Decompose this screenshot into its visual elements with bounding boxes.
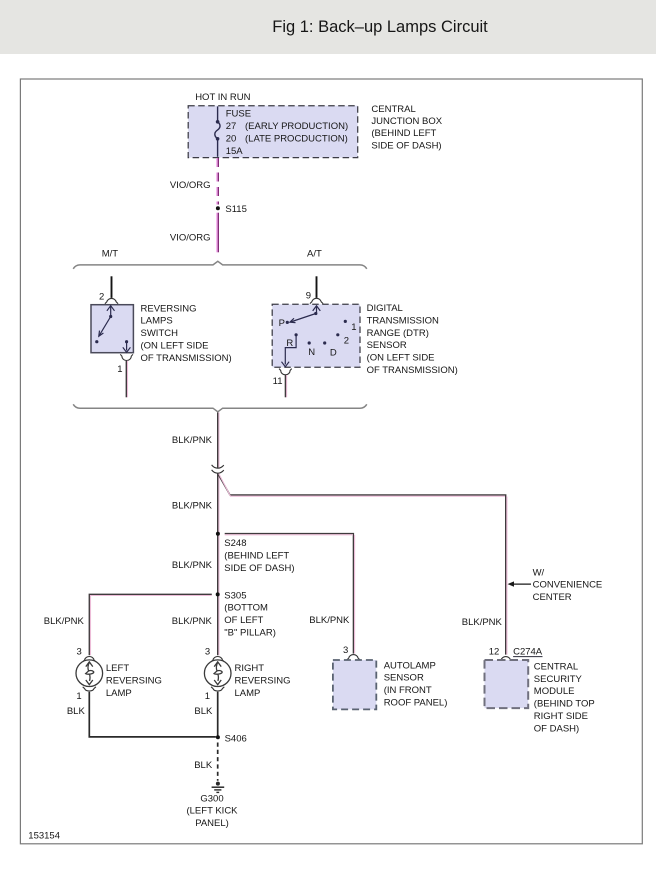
svg-text:1: 1 [76, 691, 81, 702]
svg-text:3: 3 [205, 647, 210, 658]
wire label BLK/PNK [172, 500, 213, 511]
splice node S406 [216, 733, 247, 744]
pin 3 (left lamp) [77, 647, 82, 658]
svg-text:2: 2 [99, 292, 104, 303]
top brace [73, 261, 367, 269]
right lamp label [235, 663, 291, 699]
svg-text:(EARLY PRODUCTION): (EARLY PRODUCTION) [245, 121, 348, 132]
svg-text:11: 11 [273, 376, 283, 387]
svg-text:S305: S305 [224, 590, 246, 601]
DTR sensor box [272, 304, 360, 367]
left lamp label [106, 663, 162, 699]
connector arc CSM [499, 657, 512, 662]
wire label BLK/PNK (autolamp) [309, 615, 350, 626]
svg-text:REVERSING: REVERSING [141, 303, 197, 314]
svg-text:VIO/ORG: VIO/ORG [170, 180, 211, 191]
svg-text:3: 3 [343, 645, 348, 656]
svg-text:20: 20 [226, 133, 237, 144]
svg-text:(BEHIND LEFT: (BEHIND LEFT [371, 128, 436, 139]
w/ convenience center arrow [508, 581, 531, 586]
wire BLK/PNK (switch pin1 down) [126, 361, 127, 398]
svg-text:BLK/PNK: BLK/PNK [44, 616, 85, 627]
svg-text:CENTER: CENTER [533, 592, 572, 603]
figure number 153154 [28, 831, 60, 842]
branch label M/T [102, 248, 119, 259]
wire label BLK/PNK [172, 435, 213, 446]
connector arc at pin 2 [105, 298, 118, 303]
svg-text:9: 9 [306, 290, 311, 301]
svg-text:ROOF PANEL): ROOF PANEL) [384, 698, 448, 709]
svg-text:HOT IN RUN: HOT IN RUN [195, 92, 250, 103]
connector arc below left lamp [83, 687, 96, 691]
autolamp sensor label [384, 660, 448, 708]
connector arc at pin 11 [279, 369, 292, 375]
node label HOT IN RUN [195, 92, 250, 103]
central security module label [534, 661, 595, 734]
svg-text:BLK/PNK: BLK/PNK [172, 560, 213, 571]
wire label BLK/PNK (CSM) [462, 617, 503, 628]
svg-text:CENTRAL: CENTRAL [534, 661, 578, 672]
svg-text:(BEHIND LEFT: (BEHIND LEFT [224, 551, 289, 562]
connector arc at pin 1 [120, 354, 133, 360]
svg-text:(BOTTOM: (BOTTOM [224, 603, 268, 614]
wire BLK dashed (S406 to G300) [217, 743, 219, 781]
connector arc at pin 9 [310, 298, 323, 303]
DTR sensor symbol [282, 306, 347, 367]
bottom brace [73, 404, 367, 412]
inline connector [212, 465, 224, 473]
pin 3 (autolamp) [343, 645, 348, 656]
wire BLK/PNK (S305 branch to left lamp) [89, 594, 212, 655]
svg-text:LAMP: LAMP [235, 688, 261, 699]
wire BLK (right lamp to S406) [217, 692, 219, 736]
svg-text:BLK/PNK: BLK/PNK [462, 617, 503, 628]
wire label BLK/PNK [172, 560, 213, 571]
svg-text:AUTOLAMP: AUTOLAMP [384, 660, 436, 671]
wire label BLK/PNK (left lamp) [44, 616, 85, 627]
pin 9 [306, 290, 311, 301]
pin 1 (right lamp) [205, 691, 210, 702]
svg-text:R: R [286, 338, 293, 349]
reversing lamps switch label [141, 303, 232, 364]
wire label BLK/PNK (right lamp) [172, 616, 213, 627]
svg-text:(LEFT KICK: (LEFT KICK [186, 806, 238, 817]
header bar [0, 0, 656, 54]
svg-text:12: 12 [489, 647, 500, 658]
svg-text:DIGITAL: DIGITAL [367, 303, 403, 314]
svg-text:(LATE PROCDUCTION): (LATE PROCDUCTION) [245, 133, 348, 144]
svg-text:S406: S406 [225, 733, 247, 744]
svg-text:S115: S115 [225, 204, 246, 215]
svg-text:REVERSING: REVERSING [106, 676, 162, 687]
svg-text:BLK: BLK [194, 706, 213, 717]
svg-text:SECURITY: SECURITY [534, 674, 583, 685]
svg-text:"B" PILLAR): "B" PILLAR) [224, 628, 276, 639]
svg-text:1: 1 [117, 364, 122, 375]
svg-text:TRANSMISSION: TRANSMISSION [367, 315, 439, 326]
pin 2 [99, 292, 104, 303]
wire label VIO/ORG [170, 233, 211, 244]
central junction box label [371, 104, 442, 152]
svg-text:BLK/PNK: BLK/PNK [172, 500, 213, 511]
connector arc left lamp [83, 656, 96, 661]
svg-text:P: P [279, 318, 285, 329]
svg-text:CONVENIENCE: CONVENIENCE [533, 580, 603, 591]
wire BLK/PNK (connector to lamps trunk) [218, 473, 219, 655]
svg-text:27: 27 [226, 121, 237, 132]
svg-text:1: 1 [351, 322, 356, 333]
central junction box C (dashed box) [188, 106, 358, 158]
svg-text:S248: S248 [224, 538, 246, 549]
svg-text:OF DASH): OF DASH) [534, 723, 579, 734]
connector C274A label [513, 646, 543, 657]
branch label A/T [307, 248, 322, 259]
svg-text:BLK/PNK: BLK/PNK [172, 435, 213, 446]
connector arc right lamp [211, 656, 224, 661]
svg-text:RIGHT: RIGHT [235, 663, 265, 674]
svg-text:RANGE (DTR): RANGE (DTR) [367, 328, 429, 339]
reversing lamps switch box [91, 305, 133, 353]
splice S248 label [224, 538, 294, 574]
wire BLK (left lamp to S406) [89, 692, 216, 737]
svg-text:OF LEFT: OF LEFT [224, 615, 263, 626]
svg-text:A/T: A/T [307, 248, 322, 259]
svg-text:N: N [308, 347, 315, 358]
svg-text:M/T: M/T [102, 248, 119, 259]
pin 12 [489, 647, 500, 658]
fuse F27/F20 15A [215, 106, 220, 156]
wire VIO/ORG dashed (fuse to S115) [217, 158, 218, 205]
wire BLK/PNK (branch to central security module) [218, 473, 507, 654]
left reversing lamp [76, 660, 103, 687]
svg-text:BLK: BLK [67, 706, 86, 717]
svg-text:LAMPS: LAMPS [141, 316, 173, 327]
svg-text:C274A: C274A [513, 646, 543, 657]
splice S305 label [224, 590, 276, 638]
wire (M/T lead) [111, 276, 113, 298]
svg-text:VIO/ORG: VIO/ORG [170, 233, 211, 244]
pin 3 (right lamp) [205, 647, 210, 658]
svg-text:FUSE: FUSE [226, 109, 251, 120]
svg-text:LEFT: LEFT [106, 663, 129, 674]
svg-text:OF TRANSMISSION): OF TRANSMISSION) [141, 353, 232, 364]
connector arc below right lamp [211, 687, 224, 691]
svg-text:BLK/PNK: BLK/PNK [309, 615, 350, 626]
svg-text:BLK: BLK [194, 760, 213, 771]
pin 1 (left lamp) [76, 691, 81, 702]
wire VIO/ORG solid (S115 to brace) [217, 213, 218, 253]
svg-text:1: 1 [205, 691, 210, 702]
svg-text:15A: 15A [226, 146, 244, 157]
wire (A/T lead) [316, 276, 318, 298]
central security module box [485, 660, 529, 708]
svg-text:BLK/PNK: BLK/PNK [172, 616, 213, 627]
svg-text:SENSOR: SENSOR [367, 340, 407, 351]
svg-text:CENTRAL: CENTRAL [371, 104, 415, 115]
w/ convenience center label [533, 567, 603, 603]
wire label BLK (ground lead) [194, 760, 213, 771]
connector arc autolamp [347, 655, 360, 660]
wire label VIO/ORG [170, 180, 211, 191]
svg-text:SIDE OF DASH): SIDE OF DASH) [224, 563, 294, 574]
splice node S305 [216, 592, 220, 596]
ground G300 [212, 782, 225, 793]
svg-text:W/: W/ [533, 567, 545, 578]
right reversing lamp [204, 660, 231, 687]
svg-text:2: 2 [344, 335, 349, 346]
DTR sensor label [367, 303, 458, 376]
svg-text:Fig 1: Back–up Lamps Circuit: Fig 1: Back–up Lamps Circuit [272, 18, 488, 36]
ground label G300 [186, 793, 238, 829]
splice node S248 [216, 532, 220, 536]
wire label BLK (right) [194, 706, 213, 717]
svg-text:SWITCH: SWITCH [141, 328, 179, 339]
switch symbol [95, 306, 130, 353]
svg-text:SENSOR: SENSOR [384, 673, 424, 684]
fuse value labels [226, 109, 348, 157]
svg-text:D: D [330, 348, 337, 359]
svg-text:RIGHT SIDE: RIGHT SIDE [534, 711, 588, 722]
wire BLK/PNK (DTR pin11 down) [285, 375, 286, 397]
DTR position labels [279, 318, 357, 359]
svg-text:MODULE: MODULE [534, 686, 575, 697]
svg-text:(IN FRONT: (IN FRONT [384, 685, 432, 696]
wire BLK/PNK (S248 branch to autolamp sensor) [225, 534, 355, 654]
svg-text:PANEL): PANEL) [195, 818, 229, 829]
svg-text:(BEHIND TOP: (BEHIND TOP [534, 699, 595, 710]
splice node S115 [216, 204, 247, 215]
svg-text:JUNCTION BOX: JUNCTION BOX [371, 116, 442, 127]
svg-text:(ON LEFT SIDE: (ON LEFT SIDE [367, 353, 435, 364]
svg-text:OF TRANSMISSION): OF TRANSMISSION) [367, 365, 458, 376]
svg-text:153154: 153154 [28, 831, 60, 842]
pin 1 [117, 364, 122, 375]
svg-text:LAMP: LAMP [106, 688, 132, 699]
svg-text:(ON LEFT SIDE: (ON LEFT SIDE [141, 341, 209, 352]
wire BLK/PNK (brace to inline connector) [218, 413, 219, 468]
pin 11 [273, 376, 283, 387]
svg-text:SIDE OF DASH): SIDE OF DASH) [371, 140, 441, 151]
svg-text:3: 3 [77, 647, 82, 658]
wire label BLK (left) [67, 706, 86, 717]
autolamp sensor box [333, 660, 376, 709]
svg-text:G300: G300 [200, 793, 223, 804]
svg-text:REVERSING: REVERSING [235, 676, 291, 687]
